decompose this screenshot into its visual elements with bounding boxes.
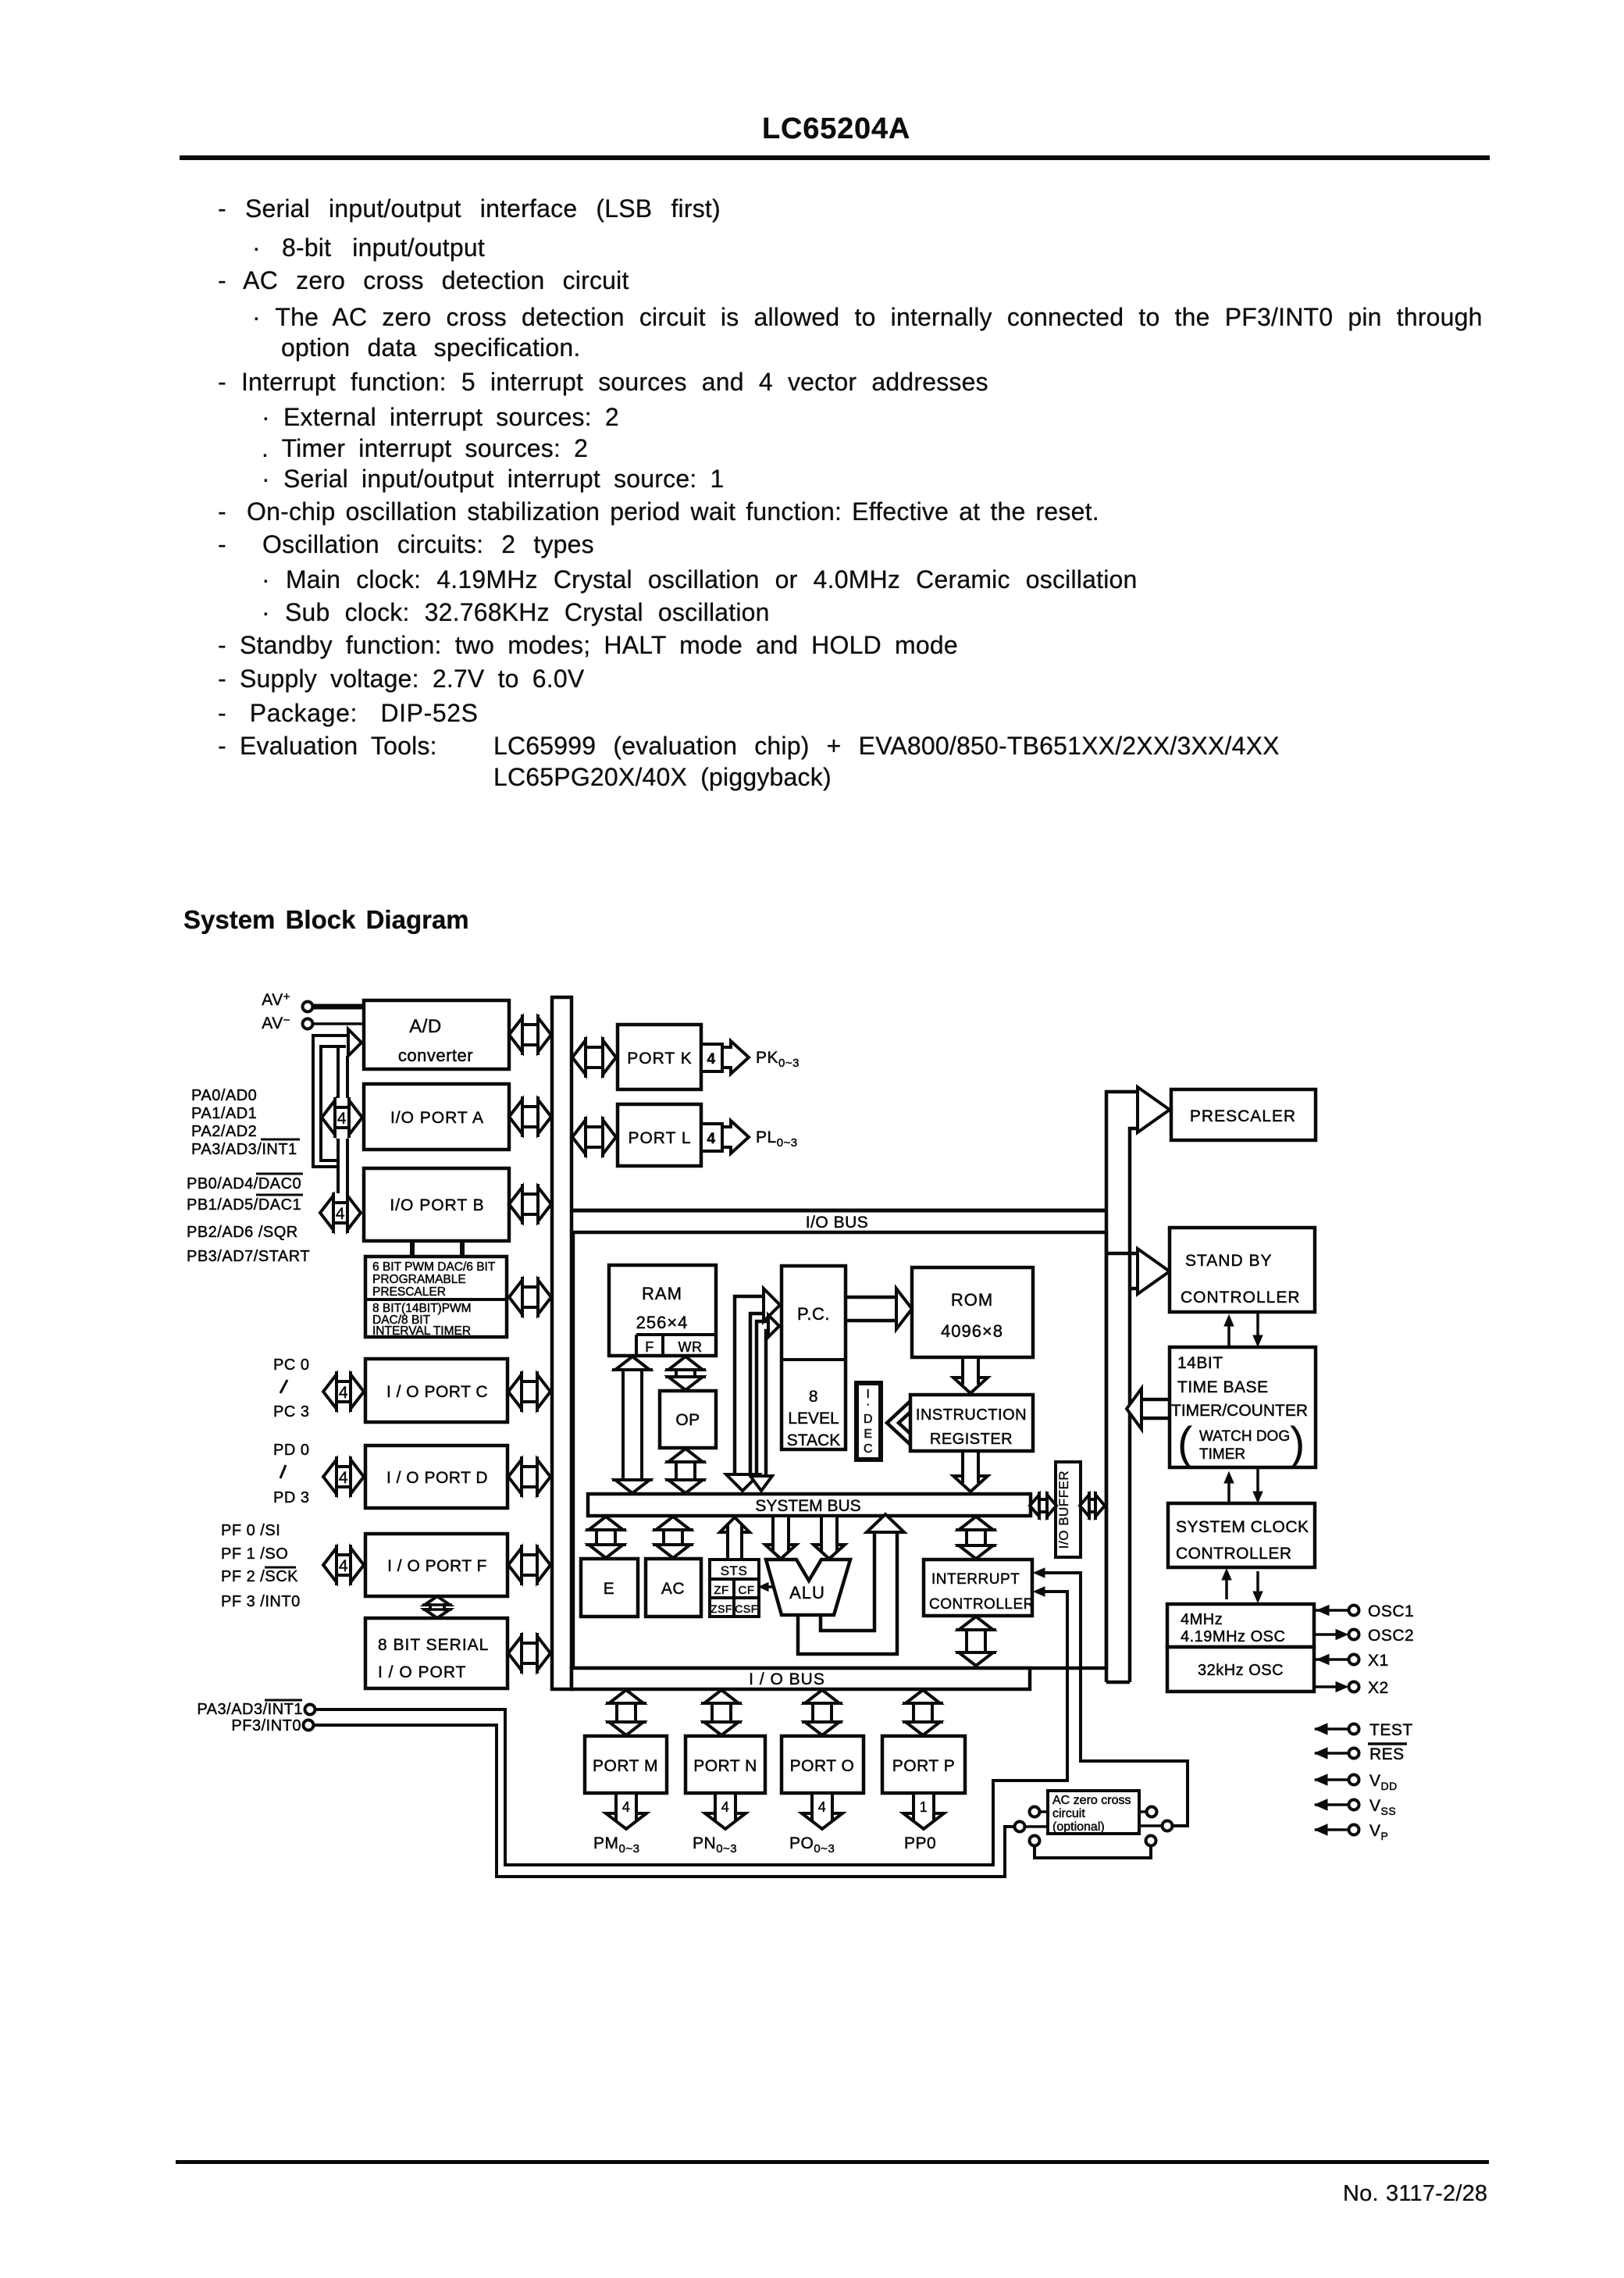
pin VP terminal	[1315, 1824, 1327, 1835]
svg-text:CF: CF	[739, 1584, 755, 1597]
wire: I/O bus to PORT P arrow	[906, 1690, 940, 1735]
svg-text:AV+: AV+	[262, 990, 290, 1009]
block: I DEC (instruction decoder)	[857, 1383, 881, 1460]
block: PORT O	[782, 1736, 864, 1793]
svg-text:4: 4	[339, 1384, 348, 1402]
wire: PK output arrow	[722, 1041, 749, 1074]
svg-text:PA3/AD3/INT1: PA3/AD3/INT1	[197, 1701, 303, 1718]
svg-text:·: ·	[866, 1398, 871, 1411]
node: AC zero cross bottom left terminal	[1030, 1836, 1040, 1846]
svg-text:P.C.: P.C.	[797, 1304, 830, 1324]
wire: bus to PORT L arrow	[572, 1120, 616, 1154]
block: P.C. and 8 level stack	[782, 1266, 846, 1449]
wire: instruction register to I DEC arrow	[887, 1401, 910, 1445]
svg-text:ZF: ZF	[714, 1584, 728, 1597]
svg-text:INTERVAL TIMER: INTERVAL TIMER	[372, 1324, 471, 1338]
bus: right vertical bus bottom cap	[1106, 1681, 1130, 1684]
svg-text:F: F	[645, 1339, 654, 1355]
bus width marker 4 (PORT B pins)	[320, 1196, 361, 1230]
svg-text:PF 2 /SCK: PF 2 /SCK	[221, 1568, 298, 1585]
wire: PORT B to bus arrow	[509, 1187, 551, 1221]
wire: left internal bus bar (vertical)	[552, 997, 572, 1689]
wire: system bus to interrupt controller arrow	[959, 1517, 993, 1559]
block U1: A/D converter	[364, 1000, 509, 1069]
svg-text:4: 4	[818, 1799, 827, 1815]
svg-text:CSF: CSF	[735, 1602, 758, 1615]
block: PORT P	[882, 1736, 965, 1793]
svg-text:INTERRUPT: INTERRUPT	[931, 1571, 1020, 1588]
wire: I/O bus to PORT M arrow	[609, 1690, 643, 1735]
title	[762, 112, 910, 146]
block: PRESCALER	[1171, 1089, 1316, 1140]
top rule	[180, 155, 1490, 160]
svg-text:TIMER: TIMER	[1199, 1446, 1245, 1463]
svg-text:PRESCALER: PRESCALER	[372, 1285, 446, 1299]
block: OP register	[660, 1391, 716, 1448]
node: ZSF flag	[710, 1598, 734, 1617]
svg-text:I / O PORT D: I / O PORT D	[386, 1469, 488, 1487]
svg-text:PL0~3: PL0~3	[756, 1128, 798, 1150]
wire: P.C. to ROM arrow	[846, 1296, 896, 1299]
block: PORT L	[618, 1104, 701, 1166]
svg-text:STAND BY: STAND BY	[1185, 1252, 1272, 1270]
block: I/O PORT F	[365, 1534, 507, 1596]
block: 4MHz 4.19MHz OSC	[1167, 1604, 1314, 1647]
wire: system bus to AC arrow	[656, 1517, 690, 1558]
block: 14BIT TIME BASE TIMER/COUNTER (WATCH DOG TIMER)	[1170, 1347, 1316, 1467]
svg-text:4: 4	[336, 1205, 345, 1223]
svg-text:VDD: VDD	[1369, 1772, 1398, 1792]
bus width marker 4 (PORT D pins)	[323, 1460, 364, 1494]
wire: PORT D to bus arrow	[508, 1460, 550, 1494]
node: CSF flag	[734, 1598, 759, 1617]
svg-text:WATCH DOG: WATCH DOG	[1199, 1428, 1290, 1445]
pin RES terminal (active low)	[1315, 1748, 1327, 1759]
svg-text:ROM: ROM	[951, 1290, 993, 1310]
block: I/O PORT C	[365, 1359, 507, 1422]
pin VSS terminal	[1315, 1799, 1327, 1810]
wire: AC zero cross bottom loop	[1035, 1845, 1151, 1858]
pin range tick	[280, 1465, 286, 1478]
wire: OP to system bus arrow	[668, 1449, 703, 1493]
svg-text:6 BIT PWM DAC/6 BIT: 6 BIT PWM DAC/6 BIT	[372, 1260, 496, 1274]
pin X1 terminal	[1314, 1658, 1348, 1661]
wire: 14bit timer to bus arrow (left pointing)	[1141, 1398, 1170, 1402]
wire: bus to PRESCALER arrow head	[1138, 1087, 1170, 1132]
svg-text:4: 4	[337, 1110, 347, 1128]
svg-text:(optional): (optional)	[1052, 1820, 1105, 1834]
block: PORT K	[618, 1025, 701, 1089]
wire: system bus to E arrow	[589, 1517, 623, 1558]
section heading	[183, 905, 469, 935]
svg-text:STACK: STACK	[787, 1431, 840, 1449]
wire: PORT A to bus arrow	[509, 1100, 551, 1134]
block: STAND BY CONTROLLER	[1170, 1228, 1315, 1312]
block: AC zero cross circuit (optional)	[1048, 1791, 1139, 1834]
wire: channel between PORT A and PORT B diamonds	[337, 1139, 340, 1193]
block: PORT M	[585, 1736, 667, 1793]
wire: PL output arrow	[722, 1121, 749, 1153]
svg-text:X1: X1	[1368, 1652, 1389, 1670]
pin VDD terminal	[1315, 1774, 1327, 1785]
pin TEST terminal	[1315, 1724, 1327, 1734]
wire: PORT M output arrow with width 4	[606, 1793, 646, 1829]
wire: ROM to instruction register arrow	[953, 1357, 988, 1393]
node: CF flag	[734, 1579, 759, 1598]
wire: I/O buffer to right bus arrow	[1080, 1495, 1105, 1517]
wire AV+ to A/D converter	[313, 1004, 364, 1010]
node: AC zero cross right terminal	[1147, 1807, 1157, 1817]
svg-text:4: 4	[339, 1557, 348, 1575]
svg-text:STS: STS	[721, 1563, 748, 1578]
svg-text:4.19MHz OSC: 4.19MHz OSC	[1181, 1628, 1285, 1645]
wire: analog input channel arrow into A/D	[348, 1029, 361, 1056]
svg-text:converter: converter	[398, 1046, 473, 1065]
wire: ALU output feedback to system bus	[798, 1531, 897, 1654]
svg-text:PF3/INT0: PF3/INT0	[231, 1717, 301, 1734]
wire: PORT F to bus arrow	[508, 1548, 550, 1582]
svg-text:ALU: ALU	[789, 1583, 825, 1602]
node: AC zero cross left input terminal	[1030, 1807, 1040, 1817]
wire: system bus to P.C. inner channel arrow	[757, 1321, 768, 1474]
block: 6BIT PWM DAC / prescaler + 8BIT PWM DAC / interval timer	[365, 1257, 507, 1337]
svg-text:I/O PORT A: I/O PORT A	[390, 1109, 484, 1127]
svg-text:4096×8: 4096×8	[941, 1321, 1003, 1341]
block: RAM 256x4	[609, 1265, 716, 1356]
svg-text:32kHz OSC: 32kHz OSC	[1198, 1662, 1284, 1679]
block: SYSTEM CLOCK CONTROLLER	[1168, 1503, 1315, 1567]
wire: PORT N output arrow with width 4	[705, 1793, 746, 1829]
wire: AC zero cross output to interrupt controller	[1042, 1573, 1188, 1826]
svg-text:256×4: 256×4	[636, 1313, 689, 1332]
svg-text:PC 3: PC 3	[273, 1403, 309, 1421]
svg-text:14BIT: 14BIT	[1177, 1354, 1223, 1372]
svg-text:PB0/AD4/DAC0: PB0/AD4/DAC0	[187, 1175, 301, 1192]
wire: system bus to P.C. outer channel arrow	[735, 1296, 764, 1474]
wire: ALU to STS flag line	[762, 1585, 773, 1588]
svg-text:4: 4	[707, 1131, 715, 1147]
wire: top I/O BUS line	[572, 1209, 1106, 1213]
wire: standby to 14bit timer up arrow	[1227, 1321, 1230, 1347]
wire: PA3/INT1 to interrupt controller	[315, 1592, 1067, 1865]
wire: channel from PORT A pins up to A/D	[337, 1046, 340, 1098]
svg-text:PRESCALER: PRESCALER	[1190, 1107, 1296, 1125]
svg-text:4MHz: 4MHz	[1181, 1611, 1223, 1628]
node: AC zero cross bottom right terminal	[1146, 1836, 1156, 1846]
block: CPU core enclosure	[573, 1232, 1106, 1668]
svg-text:REGISTER: REGISTER	[930, 1431, 1013, 1448]
svg-text:PORT O: PORT O	[790, 1757, 855, 1775]
svg-text:PF 1 /SO: PF 1 /SO	[221, 1545, 288, 1563]
block: 8 BIT SERIAL I/O PORT	[365, 1618, 507, 1688]
wire: PORT F to serial port arrow	[425, 1596, 450, 1618]
wire: I/O bus to PORT N arrow	[704, 1690, 739, 1735]
wire: bus to standby controller arrow	[1106, 1252, 1138, 1256]
wire: system bus to ALU input arrows	[765, 1516, 796, 1559]
wire: 14bit timer to system clock down arrow	[1256, 1469, 1259, 1495]
svg-text:PN0~3: PN0~3	[693, 1834, 737, 1856]
block: PORT N	[686, 1736, 765, 1793]
node: RAM F register cell	[635, 1335, 638, 1356]
svg-text:1: 1	[920, 1799, 928, 1815]
svg-text:): )	[1290, 1418, 1305, 1469]
block: INSTRUCTION REGISTER	[910, 1395, 1033, 1451]
svg-text:AC zero cross: AC zero cross	[1052, 1794, 1131, 1807]
svg-text:AV−: AV−	[262, 1014, 290, 1032]
svg-text:OP: OP	[675, 1411, 700, 1429]
svg-text:PA1/AD1: PA1/AD1	[191, 1105, 257, 1122]
svg-text:C: C	[864, 1442, 873, 1456]
pin OSC2 terminal	[1314, 1633, 1346, 1636]
block: E register	[581, 1559, 638, 1617]
svg-text:PORT M: PORT M	[593, 1757, 658, 1775]
svg-text:PF 0 /SI: PF 0 /SI	[221, 1522, 280, 1539]
block: I/O PORT B	[364, 1168, 509, 1241]
pin X2 terminal	[1314, 1685, 1346, 1688]
svg-text:AC: AC	[661, 1580, 685, 1598]
wire: serial port to bus arrow	[508, 1636, 550, 1670]
svg-text:PD 3: PD 3	[273, 1489, 309, 1506]
wire: PORT C to bus arrow	[508, 1374, 550, 1409]
svg-text:RAM: RAM	[642, 1284, 682, 1303]
svg-text:SYSTEM CLOCK: SYSTEM CLOCK	[1176, 1518, 1309, 1536]
feature list	[218, 194, 721, 223]
svg-text:PK0~3: PK0~3	[756, 1049, 800, 1070]
node: ZF flag	[710, 1579, 734, 1598]
svg-text:CONTROLLER: CONTROLLER	[1181, 1289, 1301, 1307]
svg-text:I/O BUS: I/O BUS	[806, 1214, 869, 1232]
block: I/O BUFFER	[1056, 1462, 1081, 1557]
svg-text:PB1/AD5/DAC1: PB1/AD5/DAC1	[187, 1196, 301, 1214]
svg-text:TIME BASE: TIME BASE	[1177, 1378, 1269, 1396]
svg-text:8 BIT SERIAL: 8 BIT SERIAL	[378, 1636, 489, 1654]
svg-text:PA0/AD0: PA0/AD0	[191, 1087, 257, 1104]
wire: PF3/INT0 to AC zero cross circuit	[313, 1725, 1014, 1877]
svg-text:PB2/AD6 /SQR: PB2/AD6 /SQR	[187, 1224, 298, 1241]
svg-text:I/O PORT B: I/O PORT B	[390, 1196, 484, 1214]
wire: system bus to I/O buffer arrow	[1030, 1495, 1056, 1517]
svg-text:D: D	[864, 1413, 873, 1426]
svg-text:I / O PORT F: I / O PORT F	[387, 1557, 487, 1575]
wire: A/D to bus arrow	[509, 1018, 551, 1052]
block: 32kHz OSC	[1167, 1647, 1314, 1692]
wire: bus to PORT K arrow	[572, 1040, 616, 1075]
svg-text:4: 4	[707, 1051, 715, 1068]
svg-text:E: E	[864, 1428, 872, 1441]
svg-text:CONTROLLER: CONTROLLER	[929, 1596, 1035, 1613]
bus: bottom I/O BUS bar	[572, 1668, 1030, 1689]
bus: right vertical bus (right line)	[1130, 1128, 1138, 1682]
wire: RAM to system bus arrow	[615, 1356, 650, 1493]
bus: right vertical bus (left line)	[1106, 1092, 1138, 1682]
svg-text:ZSF: ZSF	[710, 1602, 732, 1615]
wire: I/O bus to PORT O arrow	[805, 1690, 839, 1735]
bus width marker 4 (PORT F pins)	[323, 1548, 364, 1582]
wire AV- to A/D converter	[313, 1022, 364, 1025]
wire: PWM DAC to bus arrow	[509, 1280, 551, 1314]
svg-text:I / O BUS: I / O BUS	[749, 1670, 825, 1688]
svg-text:WR: WR	[678, 1339, 703, 1355]
node: PORT K width 4	[701, 1044, 722, 1071]
svg-text:SYSTEM BUS: SYSTEM BUS	[755, 1497, 860, 1515]
block: ALU	[766, 1560, 850, 1615]
svg-text:4: 4	[622, 1799, 631, 1815]
footer rule	[176, 2160, 1489, 2164]
svg-text:TIMER/COUNTER: TIMER/COUNTER	[1171, 1402, 1308, 1420]
svg-text:OSC1: OSC1	[1368, 1602, 1414, 1620]
bus width marker 4 (PORT C pins)	[323, 1374, 364, 1409]
svg-text:VP: VP	[1369, 1822, 1388, 1842]
block: STS status register	[710, 1560, 759, 1579]
block: INTERRUPT CONTROLLER	[924, 1560, 1032, 1616]
svg-text:VSS: VSS	[1369, 1797, 1396, 1817]
pin range tick	[280, 1380, 287, 1393]
svg-text:PORT K: PORT K	[627, 1050, 692, 1068]
svg-text:LEVEL: LEVEL	[788, 1410, 839, 1428]
svg-text:PA3/AD3/INT1: PA3/AD3/INT1	[191, 1141, 297, 1158]
node: PORT L width 4	[701, 1124, 722, 1151]
svg-text:PO0~3: PO0~3	[789, 1834, 835, 1856]
node: AC zero cross left lower terminal (from PF3/INT0)	[1015, 1822, 1025, 1832]
svg-text:I / O PORT C: I / O PORT C	[386, 1383, 488, 1401]
svg-text:PP0: PP0	[904, 1834, 936, 1852]
svg-text:X2: X2	[1368, 1679, 1389, 1697]
wire: RAM to OP arrow	[668, 1356, 703, 1390]
block: I/O PORT D	[365, 1446, 507, 1508]
wire: 14bit timer to system clock up arrow	[1227, 1478, 1230, 1503]
svg-text:PORT L: PORT L	[628, 1129, 691, 1147]
svg-text:E: E	[604, 1580, 615, 1598]
block: AC accumulator	[646, 1559, 701, 1617]
svg-text:(: (	[1177, 1418, 1192, 1469]
wire: channel loop from PORT B pins to A/D (outer)	[313, 1036, 348, 1167]
svg-text:PF 3 /INT0: PF 3 /INT0	[221, 1593, 301, 1610]
wire: PORT O output arrow with width 4	[802, 1793, 842, 1829]
svg-text:PM0~3: PM0~3	[593, 1834, 639, 1856]
svg-text:PB3/AD7/START: PB3/AD7/START	[187, 1248, 310, 1265]
block: I/O PORT A	[364, 1084, 509, 1150]
svg-text:4: 4	[721, 1799, 730, 1815]
svg-text:4: 4	[339, 1469, 348, 1487]
svg-text:TEST: TEST	[1369, 1721, 1413, 1739]
bus width marker 4 (PORT A pins)	[322, 1100, 362, 1135]
wire: instruction register to system bus arrow	[953, 1451, 988, 1492]
svg-text:PA2/AD2: PA2/AD2	[191, 1123, 257, 1140]
wire: standby to 14bit timer down arrow	[1256, 1313, 1259, 1339]
svg-text:PORT N: PORT N	[693, 1757, 757, 1775]
node: AC zero cross right lower terminal (to interrupt)	[1163, 1821, 1173, 1831]
svg-text:A/D: A/D	[409, 1016, 442, 1037]
svg-text:RES: RES	[1369, 1745, 1405, 1763]
wire: interrupt controller to I/O bus arrow	[959, 1617, 993, 1666]
wire: PORT P output arrow with width 1	[903, 1793, 944, 1829]
svg-text:8: 8	[809, 1388, 818, 1406]
svg-text:OSC2: OSC2	[1368, 1627, 1414, 1645]
wire: STS to system bus arrow	[720, 1517, 750, 1560]
block: ROM 4096x8	[912, 1267, 1033, 1357]
svg-text:INSTRUCTION: INSTRUCTION	[916, 1406, 1027, 1424]
svg-text:PC 0: PC 0	[273, 1356, 309, 1374]
footer number	[1343, 2181, 1487, 2207]
svg-text:PD 0: PD 0	[273, 1442, 309, 1459]
svg-text:PORT P: PORT P	[892, 1757, 955, 1775]
wire: PORT B to PWM DAC connectors	[410, 1241, 415, 1257]
svg-text:I/O BUFFER: I/O BUFFER	[1056, 1471, 1071, 1549]
wire: system clock to OSC down arrow	[1256, 1571, 1259, 1595]
svg-text:I / O PORT: I / O PORT	[378, 1663, 466, 1681]
svg-text:PROGRAMABLE: PROGRAMABLE	[372, 1273, 466, 1286]
svg-text:CONTROLLER: CONTROLLER	[1176, 1545, 1292, 1563]
pin OSC1 terminal	[1314, 1609, 1348, 1612]
bus: SYSTEM BUS	[588, 1494, 1031, 1516]
wire: system clock to OSC up arrow	[1225, 1574, 1228, 1599]
svg-text:circuit: circuit	[1052, 1807, 1085, 1820]
